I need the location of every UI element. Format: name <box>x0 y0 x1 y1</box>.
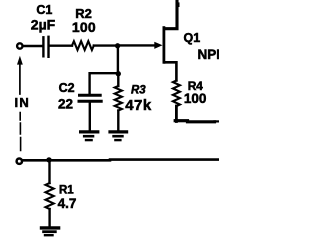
wire node C to R1 <box>48 161 50 183</box>
svg-text:Q1: Q1 <box>184 31 201 45</box>
ground below R1 <box>42 228 59 235</box>
wire node A to Q1 base <box>119 44 156 46</box>
wire terminal to C1 <box>23 45 43 47</box>
svg-text:NPN: NPN <box>198 47 220 62</box>
node C junction dot <box>46 157 51 162</box>
IN arrow <box>17 56 23 65</box>
wire R4 down to corner <box>175 106 178 122</box>
capacitor C1 <box>43 37 48 57</box>
arrowhead into base <box>154 42 162 49</box>
input terminal top (open circle) <box>17 43 22 48</box>
svg-text:2µF: 2µF <box>31 16 56 32</box>
wire C1 to R2 <box>50 45 72 47</box>
svg-text:4.7: 4.7 <box>58 196 77 211</box>
svg-text:R1: R1 <box>59 184 74 196</box>
wire C2 to ground <box>89 103 91 131</box>
resistor R2 <box>72 41 94 50</box>
wire R2 to node A <box>94 44 116 46</box>
wire below IN <box>19 113 21 151</box>
wire R4 bottom to right <box>175 119 187 122</box>
wire node B to R3 <box>117 75 119 86</box>
wire node B left <box>91 72 118 74</box>
svg-text:100: 100 <box>72 19 96 35</box>
bottom wire right segment <box>110 158 219 161</box>
wire node A down to node B <box>117 46 119 72</box>
svg-text:IN: IN <box>15 95 31 110</box>
svg-text:22: 22 <box>58 96 73 111</box>
ground below C2 <box>81 132 98 140</box>
node A junction dot <box>115 43 120 48</box>
svg-text:47k: 47k <box>125 97 152 114</box>
svg-text:C1: C1 <box>36 3 52 17</box>
wire R4 bottom right continuation <box>188 120 215 123</box>
svg-text:R3: R3 <box>131 84 146 96</box>
wire down to C2 <box>88 73 90 93</box>
resistor R1 <box>46 183 54 209</box>
wire R4 bottom right tail <box>215 120 220 122</box>
svg-text:100: 100 <box>184 91 207 106</box>
capacitor C2 <box>79 95 101 101</box>
ground below R3 <box>110 132 127 140</box>
resistor R4 <box>173 81 180 107</box>
svg-text:C2: C2 <box>59 81 75 95</box>
transistor Q1 <box>164 0 179 81</box>
wire R3 to ground <box>117 111 119 131</box>
input terminal bottom (open circle) <box>17 159 22 164</box>
bottom wire <box>22 159 110 162</box>
node B junction dot <box>116 71 121 76</box>
resistor R3 <box>115 86 122 111</box>
wire R1 to ground <box>48 209 50 227</box>
